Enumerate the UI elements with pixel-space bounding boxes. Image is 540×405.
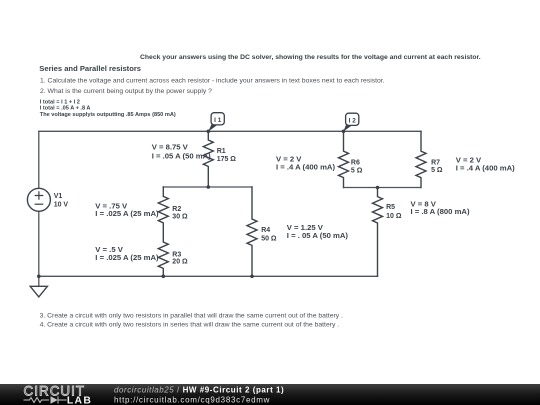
svg-text:R4: R4 [261, 227, 270, 234]
svg-text:I = . 05 A (50 mA): I = . 05 A (50 mA) [287, 231, 349, 240]
svg-text:I = .8 A (800 mA): I = .8 A (800 mA) [411, 207, 470, 216]
svg-text:http://circuitlab.com/cq9d383c: http://circuitlab.com/cq9d383c7edmw [114, 395, 270, 404]
svg-text:1. Calculate the voltage and c: 1. Calculate the voltage and current acr… [40, 77, 385, 84]
svg-text:3. Create a circuit with only: 3. Create a circuit with only two resist… [40, 313, 343, 320]
svg-text:V = 8.75 V: V = 8.75 V [152, 143, 189, 152]
svg-text:I = .025 A (25 mA): I = .025 A (25 mA) [95, 209, 159, 218]
svg-text:5 Ω: 5 Ω [431, 167, 443, 174]
svg-text:R3: R3 [172, 251, 181, 258]
svg-text:R2: R2 [172, 206, 181, 213]
svg-text:2. What is the current being o: 2. What is the current being output by t… [40, 88, 212, 95]
svg-text:V1: V1 [54, 193, 63, 200]
svg-text:4. Create a circuit with only: 4. Create a circuit with only two resist… [40, 322, 340, 329]
svg-text:I total = .05 A + .8 A: I total = .05 A + .8 A [40, 106, 91, 112]
svg-text:I total = I 1 + I 2: I total = I 1 + I 2 [40, 99, 80, 105]
svg-text:10 V: 10 V [54, 202, 69, 209]
svg-text:20 Ω: 20 Ω [172, 258, 188, 265]
svg-text:dorcircuitlab25 / HW #9-Circui: dorcircuitlab25 / HW #9-Circuit 2 (part … [114, 385, 284, 394]
svg-text:10 Ω: 10 Ω [386, 213, 402, 220]
svg-text:5 Ω: 5 Ω [351, 168, 363, 175]
svg-text:50 Ω: 50 Ω [261, 236, 277, 243]
svg-text:The voltage supplyis outputtin: The voltage supplyis outputting .85 Amps… [40, 112, 176, 118]
svg-text:R6: R6 [351, 160, 360, 167]
svg-text:I 2: I 2 [349, 117, 357, 124]
svg-text:175 Ω: 175 Ω [217, 156, 237, 163]
svg-text:I = .4 A (400 mA): I = .4 A (400 mA) [276, 162, 335, 171]
svg-text:I 1: I 1 [214, 117, 222, 124]
svg-text:Check your answers using the D: Check your answers using the DC solver, … [140, 54, 481, 61]
svg-text:30 Ω: 30 Ω [172, 213, 188, 220]
svg-text:I = .4 A (400 mA): I = .4 A (400 mA) [456, 163, 515, 172]
svg-text:LAB: LAB [67, 395, 92, 405]
svg-text:R7: R7 [431, 159, 440, 166]
svg-text:R1: R1 [217, 148, 226, 155]
svg-text:R5: R5 [386, 204, 395, 211]
svg-text:I = .025 A (25 mA): I = .025 A (25 mA) [95, 253, 159, 262]
svg-text:Series and Parallel resistors: Series and Parallel resistors [39, 64, 141, 73]
svg-text:I = .05 A (50 mA): I = .05 A (50 mA) [152, 152, 211, 161]
